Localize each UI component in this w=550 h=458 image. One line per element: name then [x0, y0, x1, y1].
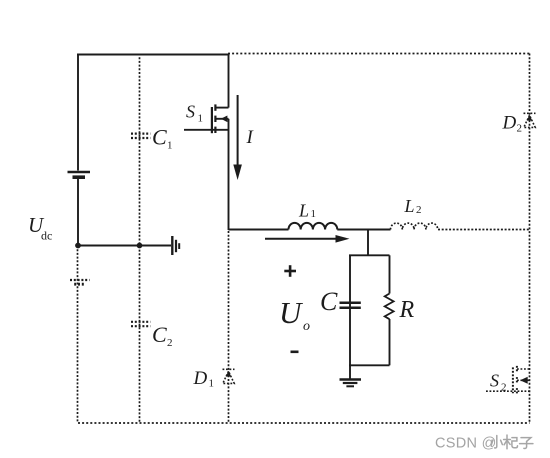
wire R branch lower [389, 319, 391, 365]
transistor S1 [184, 104, 229, 133]
node junction dot left [75, 243, 81, 249]
resistor R zigzag [385, 294, 394, 320]
svg-text:1: 1 [209, 378, 215, 390]
wire left lower [77, 179, 79, 246]
svg-text:2: 2 [501, 382, 507, 394]
svg-text:o: o [303, 319, 310, 334]
wire dashed bottom border [78, 422, 530, 424]
svg-text:1: 1 [167, 140, 173, 152]
wire RC top [349, 254, 390, 256]
wire dashed right border [529, 54, 531, 424]
battery Udc short plate [73, 175, 86, 179]
wire dashed vertical D1 branch [228, 231, 230, 423]
svg-text:dc: dc [41, 229, 52, 243]
wire S1 source vertical [228, 119, 230, 230]
wire dashed to right border [438, 229, 530, 231]
diode D2 (dashed) [524, 113, 536, 127]
svg-text:1: 1 [311, 208, 317, 220]
inductor L1 [289, 223, 338, 230]
capacitor C1 (dashed plates) [131, 134, 150, 138]
wire dashed vertical C1-C2 branch [139, 54, 141, 424]
arrow load current [265, 235, 350, 243]
diode D1 apex fill [226, 371, 232, 377]
svg-text:2: 2 [517, 123, 523, 135]
svg-text:S: S [490, 371, 499, 391]
node junction dot middle [137, 243, 143, 249]
watermark CJK glyphs [491, 435, 533, 449]
watermark CSDN [435, 436, 497, 452]
svg-text:D: D [502, 113, 517, 134]
svg-text:R: R [399, 297, 415, 323]
wire node to RC tank [367, 230, 369, 256]
capacitor C2 (dashed plates) [131, 322, 150, 326]
wire ground stem [349, 365, 351, 379]
ground middle (right-facing) [172, 236, 179, 255]
svg-text:C: C [152, 322, 167, 347]
svg-text:C: C [320, 287, 338, 316]
wire left upper [77, 54, 79, 171]
diode D1 (dashed) [223, 369, 235, 383]
inductor L2 (dashed) [391, 223, 438, 229]
svg-text:L: L [404, 196, 415, 216]
wire middle horizontal [78, 245, 171, 247]
transistor S2 (dashed) [486, 366, 530, 395]
wire S1 drain vertical [228, 54, 230, 108]
svg-text:2: 2 [167, 337, 173, 349]
svg-text:U: U [279, 295, 304, 330]
svg-text:S: S [186, 102, 195, 122]
svg-text:D: D [193, 368, 208, 389]
svg-text:CSDN @: CSDN @ [435, 436, 497, 452]
ground output [340, 380, 362, 387]
wire dashed left border [77, 246, 79, 424]
label plus [284, 265, 296, 277]
svg-text:C: C [152, 125, 167, 150]
wire top [77, 54, 229, 56]
wire C branch upper [349, 255, 351, 365]
wire R branch upper [389, 255, 391, 293]
battery Udc long plate [68, 171, 91, 173]
svg-text:1: 1 [198, 113, 204, 125]
svg-text:2: 2 [416, 204, 422, 216]
wire RC bottom [349, 364, 390, 366]
transistor S2 body arrow fill [520, 377, 528, 384]
svg-text:L: L [298, 201, 309, 221]
wire output horizontal right of L1 [337, 229, 390, 231]
wire dashed top border [228, 53, 530, 55]
label minus [291, 350, 299, 353]
battery phantom (dashed plates) [70, 280, 90, 284]
svg-text:I: I [246, 127, 255, 148]
wire output horizontal left of L1 [229, 229, 289, 231]
diode D2 apex fill [527, 115, 533, 121]
capacitor C plates [340, 303, 361, 308]
arrow current I [233, 95, 242, 180]
